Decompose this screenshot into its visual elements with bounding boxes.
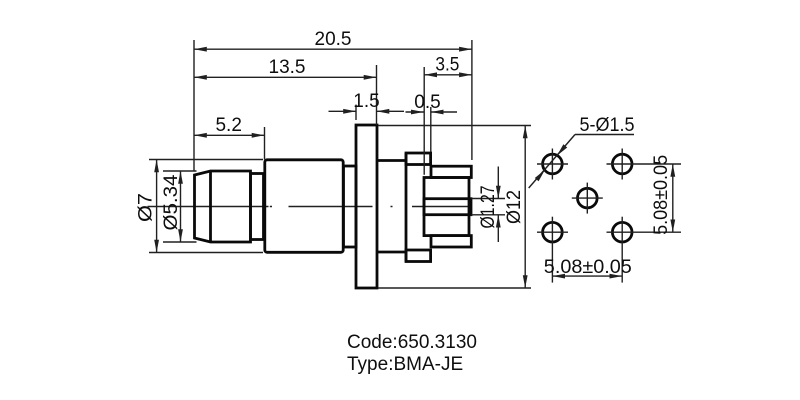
dimension dia 1.27 [472,167,506,243]
hole top-left crosshair [537,163,568,165]
step ring [251,174,264,240]
hole bottom-left [543,222,563,242]
insulator [424,178,469,236]
hole center [578,188,598,208]
rear barrel bottom edge [377,251,406,254]
coupling nut [195,171,251,242]
svg-text:5.2: 5.2 [215,115,241,136]
dimension dia 12 [378,126,531,289]
main body cylinder [265,160,343,253]
dimension 1.5 [329,91,405,120]
top cap [406,153,431,165]
bottom cap [406,250,431,262]
dimension dia 5.34 [161,171,197,242]
rear barrel top edge [377,159,406,162]
svg-text:5.08±0.05: 5.08±0.05 [544,257,632,278]
dimension 0.5 [406,92,458,152]
mounting plate left edge [405,153,408,262]
bottom ground pin [431,236,471,247]
flange [356,125,377,288]
dimension 5.08 horizontal [544,257,632,278]
label 5-dia1.5 leader [529,115,635,188]
svg-text:0.5: 0.5 [414,92,440,113]
dimension 5.08 vertical [651,155,673,235]
hole bottom-right [612,222,632,242]
top ground pin [431,166,471,177]
neck [344,166,357,247]
dimension 13.5 [194,57,377,125]
svg-text:Type:BMA-JE: Type:BMA-JE [347,354,463,375]
svg-text:Code:650.3130: Code:650.3130 [347,332,477,353]
dimension dia 7 [136,160,264,253]
hole top-right [612,154,632,174]
dimension 3.5 [424,54,472,175]
svg-text:20.5: 20.5 [315,29,352,50]
hole bottom-left crosshair [537,231,568,233]
svg-text:Ø12: Ø12 [504,190,525,224]
hole center crosshair [572,197,603,199]
svg-text:1.5: 1.5 [353,91,379,112]
dimension 20.5 [194,29,472,171]
svg-text:5-Ø1.5: 5-Ø1.5 [580,115,635,136]
hole top-right crosshair [607,163,682,165]
svg-text:Ø7: Ø7 [136,193,157,222]
hole bottom-right crosshair [607,231,682,233]
svg-text:Ø1.27: Ø1.27 [478,186,499,229]
nut chamfer line [209,171,212,242]
svg-text:3.5: 3.5 [435,54,459,75]
centerline [148,206,471,208]
svg-text:Ø5.34: Ø5.34 [161,174,182,230]
center pin [424,199,471,215]
svg-text:13.5: 13.5 [269,57,306,78]
hole top-left [543,154,563,174]
svg-text:5.08±0.05: 5.08±0.05 [651,155,672,235]
dimension 5.2 [194,115,265,160]
